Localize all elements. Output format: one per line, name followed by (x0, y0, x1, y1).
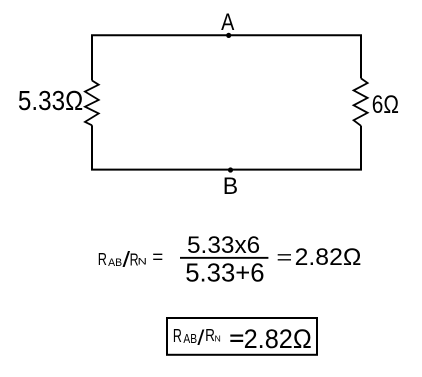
svg-text:2.82Ω: 2.82Ω (244, 324, 312, 354)
svg-text:R: R (173, 325, 182, 346)
svg-text:R: R (98, 249, 107, 269)
svg-text:AB: AB (183, 331, 197, 346)
wire: top run with corners (left vertical, top horizontal through node A, right vertical) (92, 35, 361, 80)
svg-text:5.33Ω: 5.33Ω (18, 85, 83, 116)
svg-text:/: / (197, 326, 204, 350)
svg-text:=: = (229, 329, 244, 350)
svg-text:=: = (152, 248, 163, 269)
node A junction dot (226, 33, 231, 38)
svg-text:AB: AB (108, 257, 122, 269)
resistor R1 (5.33 ohm, left branch) zigzag (85, 81, 99, 126)
equation 1: fraction bar (180, 257, 268, 259)
svg-text:R: R (205, 325, 215, 345)
node B junction dot (228, 167, 233, 172)
svg-text:6Ω: 6Ω (372, 92, 399, 119)
resistor R2 (6 ohm, right branch) zigzag (354, 78, 368, 125)
svg-text:=: = (276, 248, 292, 269)
svg-text:B: B (223, 173, 238, 200)
wire: bottom run with corners (left vertical, bottom horizontal through node B, right vertical) (92, 125, 361, 169)
result box (167, 318, 317, 355)
svg-text:N: N (138, 257, 147, 267)
svg-text:5.33+6: 5.33+6 (185, 257, 264, 287)
svg-text:2.82Ω: 2.82Ω (295, 244, 362, 271)
svg-text:N: N (215, 334, 222, 343)
svg-text:5.33x6: 5.33x6 (187, 232, 260, 259)
svg-text:A: A (221, 9, 235, 36)
